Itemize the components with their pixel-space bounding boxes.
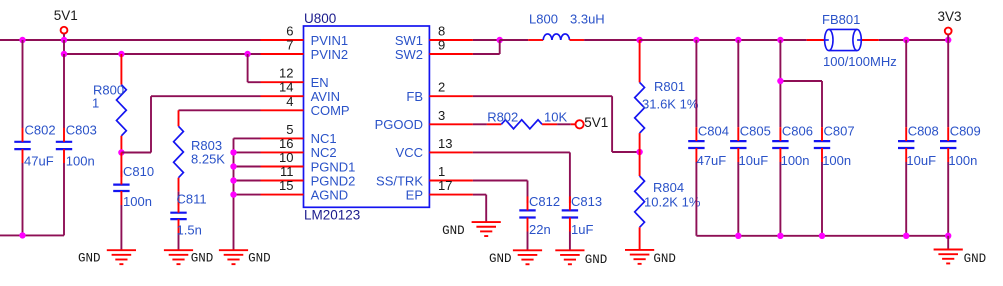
pin 2 (right) — [429, 80, 473, 97]
ground (C813) — [555, 250, 607, 267]
wire EN route (PVIN2 rail to pin 12) — [248, 54, 261, 82]
wire C807 branch from pre-bead net (y=81) — [777, 78, 822, 84]
ground (C812) — [489, 250, 542, 266]
svg-text:100n: 100n — [948, 153, 977, 168]
wire AVIN route (R800/C810 node to pin 14) — [121, 96, 260, 152]
svg-text:C813: C813 — [571, 194, 602, 209]
svg-text:GND: GND — [248, 252, 271, 266]
capacitor C813 1uF — [562, 194, 602, 250]
ground (NC/PGND bus) — [219, 250, 271, 265]
svg-text:17: 17 — [438, 178, 452, 193]
svg-text:GND: GND — [964, 252, 987, 266]
svg-text:R802: R802 — [487, 110, 518, 125]
wire NC/PGND bus (pins 5,16,10,11,15 to ground) — [230, 138, 260, 250]
resistor R802 10K (PGOOD pull-up) — [473, 110, 575, 129]
resistor R801 31.6K 1% — [635, 40, 699, 152]
svg-text:6: 6 — [286, 24, 293, 39]
svg-text:C812: C812 — [529, 194, 560, 209]
capacitor C809 100n — [940, 40, 981, 236]
svg-text:7: 7 — [286, 38, 293, 53]
pin 16 (left) — [261, 136, 304, 153]
svg-text:31.6K 1%: 31.6K 1% — [642, 96, 699, 111]
pin 5 (left) — [261, 122, 304, 139]
pin 4 (left) — [261, 94, 304, 111]
svg-text:GND: GND — [78, 252, 101, 266]
svg-text:100/100MHz: 100/100MHz — [823, 54, 897, 69]
wire COMP route (pin 4 to R803) — [179, 109, 261, 111]
svg-text:C803: C803 — [66, 123, 97, 138]
svg-text:U800: U800 — [304, 11, 336, 26]
pin 6 (left) — [261, 24, 304, 41]
svg-text:GND: GND — [653, 252, 676, 266]
svg-text:PGND2: PGND2 — [311, 173, 356, 188]
capacitor C807 100n — [814, 81, 855, 236]
svg-text:1: 1 — [438, 164, 445, 179]
ferrite bead FB801 100/100MHz — [807, 12, 897, 69]
ground (output rail) — [934, 250, 987, 267]
svg-text:10uF: 10uF — [906, 153, 936, 168]
svg-text:EN: EN — [311, 75, 329, 90]
svg-text:GND: GND — [442, 224, 465, 238]
wire output ground rail (y=235.8) — [696, 233, 951, 250]
pin 10 (left) — [261, 150, 304, 167]
svg-text:PVIN1: PVIN1 — [311, 33, 349, 48]
svg-text:NC2: NC2 — [311, 145, 337, 160]
svg-text:47uF: 47uF — [697, 153, 727, 168]
svg-text:PGOOD: PGOOD — [375, 117, 423, 132]
svg-text:GND: GND — [585, 253, 608, 267]
svg-text:13: 13 — [438, 136, 452, 151]
svg-text:GND: GND — [489, 252, 512, 266]
svg-text:2: 2 — [438, 80, 445, 95]
capacitor C803 100n — [56, 54, 97, 235]
wire EP route (pin 17 to ground) — [473, 195, 486, 223]
svg-text:PVIN2: PVIN2 — [311, 47, 349, 62]
svg-text:FB: FB — [406, 89, 423, 104]
svg-text:1uF: 1uF — [571, 222, 593, 237]
svg-text:9: 9 — [438, 38, 445, 53]
pin 13 (right) — [429, 136, 473, 153]
pin 17 (right) — [429, 178, 473, 195]
svg-text:5V1: 5V1 — [54, 8, 78, 23]
pin 7 (left) — [261, 38, 304, 55]
svg-text:FB801: FB801 — [822, 12, 860, 27]
svg-text:AGND: AGND — [311, 187, 349, 202]
svg-text:12: 12 — [279, 66, 293, 81]
pin 15 (left) — [261, 178, 304, 195]
svg-text:10: 10 — [279, 150, 293, 165]
capacitor C805 10uF — [730, 40, 771, 236]
wire output rail post-bead (3V3 net) — [879, 37, 952, 43]
svg-text:100n: 100n — [123, 194, 152, 209]
svg-text:8.25K: 8.25K — [191, 152, 225, 167]
svg-text:3: 3 — [438, 108, 445, 123]
svg-text:4: 4 — [286, 94, 293, 109]
capacitor C802 47uF — [14, 40, 55, 235]
svg-text:3V3: 3V3 — [938, 9, 962, 24]
ground (C811) — [164, 250, 213, 265]
power flag 5V1 (PGOOD pull-up) — [576, 115, 609, 130]
wire output rail pre-bead (y=40) — [640, 37, 807, 43]
svg-text:C802: C802 — [25, 123, 56, 138]
svg-text:C804: C804 — [698, 124, 729, 139]
power flag 3V3 — [938, 9, 962, 40]
ground (C810) — [78, 250, 136, 265]
svg-text:11: 11 — [280, 164, 294, 179]
svg-text:AVIN: AVIN — [311, 89, 340, 104]
pin 14 (left) — [261, 80, 304, 97]
ground (R804) — [625, 250, 676, 266]
wire SW1 to L800 node — [473, 37, 503, 43]
svg-text:3.3uH: 3.3uH — [570, 11, 605, 26]
capacitor C804 47uF — [688, 40, 729, 236]
svg-text:R801: R801 — [654, 79, 685, 94]
svg-text:8: 8 — [438, 24, 445, 39]
pin 3 (right) — [429, 108, 473, 125]
IC U800 LM20123 body — [304, 11, 430, 223]
svg-text:47uF: 47uF — [24, 154, 54, 169]
capacitor C808 10uF — [898, 40, 939, 236]
svg-text:C809: C809 — [950, 124, 981, 139]
pin 1 (right) — [429, 164, 473, 181]
svg-text:COMP: COMP — [311, 103, 350, 118]
svg-text:10.2K 1%: 10.2K 1% — [644, 195, 701, 210]
wire PVIN2 rail (y=54) — [61, 51, 261, 57]
svg-text:10uF: 10uF — [739, 153, 769, 168]
svg-text:1: 1 — [92, 95, 99, 110]
svg-text:VCC: VCC — [396, 145, 423, 160]
capacitor C811 1.5n — [170, 192, 206, 251]
svg-text:16: 16 — [279, 136, 293, 151]
svg-text:R804: R804 — [653, 180, 684, 195]
svg-text:PGND1: PGND1 — [311, 159, 356, 174]
svg-text:LM20123: LM20123 — [304, 208, 360, 223]
svg-text:100n: 100n — [781, 153, 810, 168]
wire FB route (pin 2 to divider node) — [473, 96, 643, 155]
svg-text:SW2: SW2 — [395, 47, 423, 62]
svg-text:GND: GND — [191, 252, 214, 266]
pin 8 (right) — [429, 24, 473, 41]
svg-text:C811: C811 — [177, 192, 207, 207]
wire 5V1 vertical drop to PVIN2 rail and C803 — [63, 40, 65, 54]
svg-text:C805: C805 — [740, 124, 771, 139]
svg-text:5V1: 5V1 — [584, 115, 608, 130]
pin 12 (left) — [261, 66, 304, 83]
svg-text:C807: C807 — [824, 124, 855, 139]
resistor R804 10.2K 1% — [635, 152, 701, 250]
capacitor C812 22n — [519, 194, 560, 250]
svg-text:14: 14 — [279, 80, 293, 95]
svg-text:SW1: SW1 — [395, 33, 423, 48]
svg-text:EP: EP — [406, 187, 423, 202]
svg-text:10K: 10K — [544, 110, 567, 125]
capacitor C806 100n — [772, 40, 813, 236]
pin 11 (left) — [261, 164, 304, 181]
inductor L800 3.3uH — [500, 11, 643, 43]
power flag 5V1 — [54, 8, 78, 40]
wire SW2 route up to SW node — [473, 40, 500, 54]
svg-text:22n: 22n — [529, 222, 551, 237]
svg-text:NC1: NC1 — [311, 131, 337, 146]
svg-text:100n: 100n — [822, 153, 851, 168]
capacitor C810 100n — [113, 153, 154, 251]
svg-text:SS/TRK: SS/TRK — [376, 173, 423, 188]
svg-text:15: 15 — [279, 178, 293, 193]
wire bottom-left return rail (y=235.4) — [0, 232, 64, 238]
svg-text:L800: L800 — [529, 11, 558, 26]
resistor R800 1 — [92, 54, 126, 156]
svg-text:100n: 100n — [66, 154, 95, 169]
wire VCC route (pin 13 to C813) — [473, 152, 570, 203]
resistor R803 8.25K — [174, 110, 226, 191]
svg-text:C808: C808 — [908, 124, 939, 139]
ground (EP pad) — [442, 222, 501, 238]
pin 9 (right) — [429, 38, 473, 55]
wire SS/TRK route (pin 1 to C812) — [473, 181, 528, 203]
wire PVIN1 rail (5V1 net, y=40) — [0, 37, 261, 43]
svg-text:C806: C806 — [782, 124, 813, 139]
svg-text:C810: C810 — [123, 164, 154, 179]
svg-text:5: 5 — [286, 122, 293, 137]
svg-text:1.5n: 1.5n — [177, 223, 202, 238]
